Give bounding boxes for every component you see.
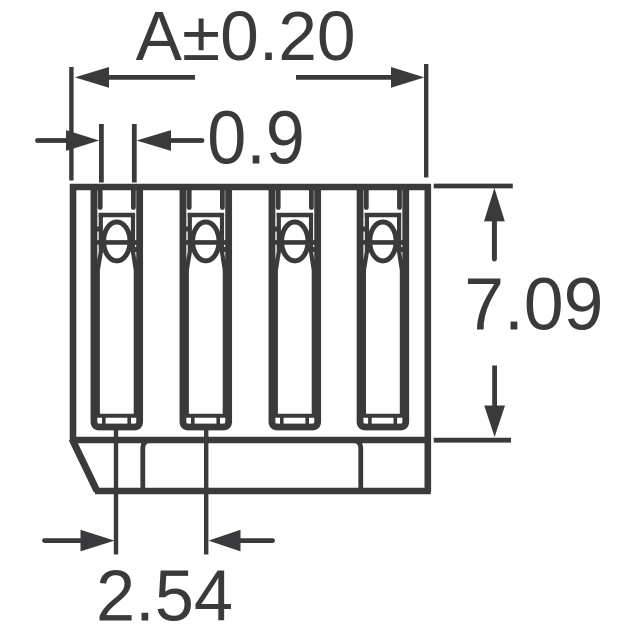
svg-text:0.9: 0.9 [207, 96, 305, 180]
svg-text:A±0.20: A±0.20 [136, 0, 356, 75]
svg-text:7.09: 7.09 [464, 262, 603, 345]
svg-text:2.54: 2.54 [96, 556, 233, 636]
